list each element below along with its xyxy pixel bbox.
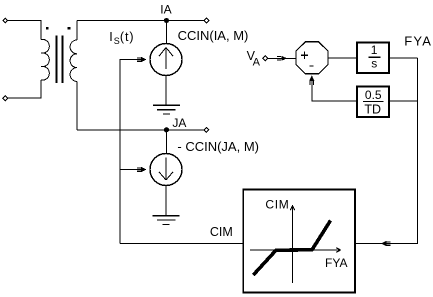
svg-text:TD: TD [364,103,381,117]
svg-text:JA: JA [172,116,186,130]
svg-text:IA: IA [160,3,171,17]
svg-text:0.5: 0.5 [365,88,382,102]
svg-text:FYA: FYA [325,256,347,270]
svg-text:s: s [371,57,377,71]
svg-text:A: A [253,57,261,69]
svg-text:I: I [109,30,112,44]
svg-text:FYA: FYA [404,34,432,49]
svg-text:CIM: CIM [210,225,233,239]
svg-text:(t): (t) [120,30,134,44]
svg-text:1: 1 [371,43,378,57]
svg-text:CIM: CIM [265,197,289,211]
svg-text:CCIN(IA, M): CCIN(IA, M) [178,28,249,43]
svg-text:- CCIN(JA, M): - CCIN(JA, M) [177,139,259,154]
